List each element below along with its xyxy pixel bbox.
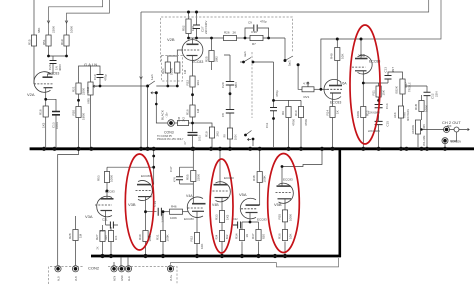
- wire V4B plate from bus: [219, 150, 221, 185]
- svg-text:470p: 470p: [104, 74, 108, 81]
- svg-text:2K: 2K: [97, 246, 100, 249]
- red ellipse around V5B: [268, 154, 300, 253]
- svg-text:R11: R11: [372, 90, 376, 96]
- tube V5A (left half): [240, 198, 259, 219]
- wire VR5 pot bottom to bus: [90, 95, 92, 147]
- wire node R51/R19 junction row: [48, 46, 50, 56]
- svg-text:R16: R16: [186, 109, 190, 115]
- svg-text:R52: R52: [182, 25, 186, 31]
- wire under-bus link: [171, 258, 339, 267]
- wire R45 to R16 node: [189, 122, 193, 124]
- wire C37/R55 top node: [180, 150, 194, 171]
- wire R9 stems: [288, 100, 290, 147]
- svg-text:C15: C15: [386, 121, 390, 127]
- capacitor C8: [226, 110, 234, 114]
- svg-text:C10: C10: [93, 74, 97, 80]
- ground bus 1: [30, 147, 474, 150]
- svg-text:C22: C22: [233, 218, 238, 221]
- resistor R49: [335, 48, 340, 61]
- svg-text:100U: 100U: [199, 135, 202, 141]
- svg-text:R33: R33: [215, 214, 219, 220]
- switch Sw1c: [246, 131, 254, 147]
- svg-text:VR5: VR5: [87, 98, 91, 104]
- wire R19 top loop: [67, 0, 110, 35]
- tube V4B (right half): [213, 182, 231, 202]
- pot VR7 TREBLE: [400, 79, 405, 94]
- svg-text:R28: R28: [68, 233, 72, 239]
- resistor R31: [160, 231, 165, 242]
- capacitor C11: [270, 108, 277, 111]
- svg-text:SCREEN: SCREEN: [451, 141, 462, 144]
- thick vertical bus link: [338, 148, 341, 258]
- resistor R24: [165, 62, 170, 73]
- svg-text:V5B: V5B: [274, 202, 282, 207]
- svg-text:CON2: CON2: [88, 266, 100, 271]
- capacitor C10: [97, 75, 104, 78]
- svg-text:R31: R31: [156, 234, 160, 240]
- wire C26 stem to V2A plate: [52, 56, 54, 60]
- tube V3A (left half): [95, 196, 114, 217]
- svg-text:C21: C21: [102, 218, 108, 222]
- resistor R12: [361, 107, 366, 118]
- resistor R48: [257, 172, 262, 183]
- svg-text:100K: 100K: [263, 175, 267, 182]
- svg-text:5a/1: 5a/1: [288, 60, 292, 66]
- svg-text:R46: R46: [171, 205, 177, 209]
- wire V6B plate stem: [360, 39, 362, 58]
- svg-text:22N 630V: 22N 630V: [204, 21, 208, 34]
- components bottom half: [73, 171, 288, 244]
- wire C20/C8 column: [224, 55, 230, 147]
- wire C11/R9/R10 top row: [274, 62, 302, 100]
- svg-text:100U: 100U: [55, 122, 59, 129]
- svg-text:V6A: V6A: [340, 82, 347, 86]
- wire R23 stem / V2B grid: [177, 50, 183, 62]
- wire V6A cathode to R14: [332, 93, 334, 107]
- svg-text:R18: R18: [39, 109, 43, 115]
- svg-text:MID BASS: MID BASS: [407, 109, 410, 121]
- svg-text:ECC83: ECC83: [105, 190, 115, 194]
- svg-text:GND: GND: [121, 275, 124, 281]
- wire R48 stems: [259, 150, 261, 205]
- svg-text:1M: 1M: [183, 69, 187, 74]
- capacitor C13b: [385, 76, 392, 80]
- svg-text:220K: 220K: [197, 174, 201, 181]
- capacitor C37: [176, 177, 183, 180]
- wire R10 stems: [300, 100, 302, 147]
- wire R51 top loop: [49, 0, 103, 35]
- svg-text:VLB+: VLB+: [170, 274, 173, 281]
- resistor R15: [31, 35, 36, 46]
- capacitor C27: [193, 25, 200, 29]
- svg-text:10K: 10K: [115, 235, 118, 240]
- resistor R23: [175, 62, 180, 73]
- svg-text:1M: 1M: [79, 233, 83, 238]
- svg-text:R32: R32: [190, 236, 194, 242]
- svg-text:R48: R48: [252, 175, 256, 181]
- resistor R19: [64, 35, 69, 46]
- resistor R9: [286, 107, 291, 118]
- svg-text:R34: R34: [235, 233, 239, 239]
- wire V5B cathode to R35: [284, 199, 286, 256]
- wire R28 stems: [75, 216, 77, 265]
- svg-text:C20: C20: [221, 82, 225, 88]
- wire R21 top: [79, 66, 91, 83]
- svg-text:10K: 10K: [289, 234, 293, 239]
- resistor R30: [143, 231, 148, 242]
- svg-text:ECC83: ECC83: [330, 101, 341, 105]
- wire R18 to bus: [45, 117, 47, 147]
- svg-text:R7: R7: [252, 42, 256, 46]
- pot VR8 MID BASS: [398, 106, 403, 118]
- wire C9 parallel loop: [245, 28, 269, 38]
- svg-text:ECC83: ECC83: [369, 60, 380, 64]
- resistor R34: [239, 230, 244, 241]
- switch Sw2 blade: [285, 56, 293, 61]
- svg-text:100K: 100K: [356, 111, 360, 118]
- svg-text:R26: R26: [224, 31, 230, 35]
- svg-text:100K: 100K: [235, 134, 238, 140]
- svg-text:R10: R10: [294, 110, 298, 116]
- dashed channel box: [161, 17, 293, 118]
- wire V3B cathode node: [146, 197, 157, 231]
- wire R37 stems: [258, 222, 260, 256]
- svg-text:R14: R14: [326, 110, 330, 116]
- dots on bus2: [100, 254, 104, 258]
- svg-text:1M: 1M: [196, 108, 200, 113]
- svg-text:47N: 47N: [174, 177, 177, 182]
- svg-text:TREBLE: TREBLE: [409, 82, 412, 92]
- svg-text:A1K: A1K: [393, 112, 397, 118]
- svg-text:ECC83: ECC83: [48, 72, 59, 76]
- svg-text:R35: R35: [278, 214, 282, 220]
- svg-text:R51: R51: [42, 39, 46, 45]
- resistor R46: [170, 209, 183, 214]
- svg-text:C11: C11: [265, 122, 269, 128]
- svg-text:R53: R53: [97, 175, 101, 181]
- resistor R13: [419, 101, 424, 112]
- wire V4A cathode to R32: [196, 211, 198, 256]
- wire R46 to V4A grid: [183, 211, 189, 213]
- svg-text:R36: R36: [278, 233, 282, 239]
- svg-text:CON3: CON3: [164, 131, 174, 135]
- resistor R22: [190, 76, 195, 87]
- svg-text:C13: C13: [384, 67, 388, 73]
- connector CON3: [168, 120, 175, 127]
- svg-text:V2B: V2B: [167, 37, 175, 42]
- resistor R20: [76, 107, 81, 118]
- wire R25 stems: [211, 38, 213, 70]
- wire RV1 to V6A grid: [314, 88, 327, 90]
- wire jog from bus to CON2 pin1: [58, 150, 79, 265]
- svg-text:B22K: B22K: [395, 86, 399, 93]
- capacitor C9: [254, 25, 257, 32]
- svg-text:A100K: A100K: [411, 125, 415, 134]
- svg-text:R19: R19: [205, 131, 209, 137]
- tube V6B: [352, 55, 372, 74]
- resistor R16: [190, 105, 195, 117]
- svg-text:1K5: 1K5: [226, 214, 230, 220]
- svg-text:22N: 22N: [435, 91, 439, 97]
- wire C13 branch: [46, 99, 56, 111]
- wire mid switch cluster: [240, 58, 274, 63]
- wire top rail long: [141, 0, 429, 12]
- svg-text:VLB: VLB: [75, 276, 78, 281]
- svg-text:R37: R37: [251, 233, 255, 239]
- svg-text:400V: 400V: [58, 64, 62, 71]
- resistor R53: [104, 172, 109, 183]
- wire R7 out: [263, 37, 285, 39]
- resistor R35: [282, 210, 287, 222]
- svg-text:ECC83: ECC83: [224, 176, 234, 180]
- resistor R21: [76, 83, 81, 94]
- tube V5B (right half): [276, 183, 294, 203]
- svg-text:220K: 220K: [82, 88, 86, 95]
- svg-text:22N 63WV: 22N 63WV: [368, 112, 380, 115]
- resistor R45: [178, 120, 189, 125]
- resistor R10: [298, 107, 303, 118]
- svg-text:R55: R55: [186, 174, 190, 180]
- svg-text:C8: C8: [221, 113, 225, 117]
- jack SCREEN: [442, 138, 448, 144]
- svg-text:V5A: V5A: [239, 192, 247, 197]
- svg-text:1K: 1K: [245, 234, 249, 238]
- svg-text:2K: 2K: [233, 31, 237, 35]
- wire switch to RV1: [298, 65, 302, 90]
- wire C10 top: [91, 66, 101, 74]
- svg-text:3.3K: 3.3K: [251, 30, 257, 34]
- svg-text:1U 50W: 1U 50W: [162, 213, 165, 223]
- arrow mark long vertical: [140, 77, 143, 80]
- wire V6B cathode node: [362, 71, 364, 107]
- resistor R51: [46, 35, 51, 46]
- ground bus 2: [91, 255, 341, 258]
- resistor R7: [250, 35, 263, 40]
- capacitor C12: [424, 92, 431, 95]
- resistor R25: [209, 51, 214, 62]
- svg-text:10K: 10K: [341, 54, 345, 59]
- svg-text:100K: 100K: [425, 105, 429, 112]
- dots on bus1: [42, 147, 46, 151]
- svg-text:220K: 220K: [52, 26, 56, 33]
- capacitor C13 (cathode): [52, 112, 60, 115]
- svg-text:VR6: VR6: [422, 124, 426, 130]
- svg-text:C14: C14: [385, 103, 389, 109]
- svg-text:3K3: 3K3: [196, 80, 200, 86]
- svg-text:15K: 15K: [382, 90, 386, 95]
- wire R53 stems: [106, 167, 108, 199]
- wire C19 to R46: [162, 211, 170, 213]
- resistor R14: [330, 107, 335, 118]
- svg-text:1a/1: 1a/1: [150, 74, 154, 80]
- svg-text:100K: 100K: [110, 175, 114, 182]
- svg-text:R27: R27: [95, 234, 99, 240]
- wire MIX to out arrow: [450, 128, 470, 130]
- svg-text:8K2: 8K2: [226, 234, 229, 239]
- svg-text:100K: 100K: [170, 216, 177, 220]
- capacitors bottom half: [110, 177, 240, 229]
- dots bottom: [152, 166, 155, 169]
- resistor R55: [191, 171, 196, 182]
- wire R13 stems: [421, 95, 423, 101]
- wire CON2 gnd stubs: [114, 257, 128, 265]
- wire R22 cathode stem: [192, 56, 194, 76]
- resistor R37: [256, 230, 261, 241]
- svg-text:V4B: V4B: [212, 203, 219, 207]
- wire R16 to bus: [192, 117, 194, 147]
- wire C27 stems: [196, 12, 198, 25]
- pot VR6 VOLUME: [415, 120, 420, 134]
- svg-text:2K2: 2K2: [216, 131, 220, 137]
- tube V3B (right half): [136, 181, 153, 201]
- svg-text:V6B: V6B: [359, 54, 366, 58]
- capacitor C26: [50, 61, 57, 64]
- svg-text:- 15v: - 15v: [166, 112, 169, 118]
- resistor R34b: [219, 231, 224, 242]
- svg-text:A1M: A1M: [86, 86, 90, 93]
- svg-text:R29: R29: [105, 235, 108, 240]
- svg-text:V4A: V4A: [186, 194, 193, 198]
- wire V2A cathode: [45, 88, 47, 106]
- svg-text:ECC83: ECC83: [184, 217, 194, 221]
- arrow mark wire R19: [65, 21, 68, 24]
- svg-text:CH 2 OUT: CH 2 OUT: [442, 120, 461, 125]
- wire VR6 bottom to bus: [417, 134, 419, 147]
- svg-text:2M2: 2M2: [215, 56, 219, 62]
- wire cathode row right: [363, 82, 388, 84]
- svg-text:100K: 100K: [70, 26, 74, 33]
- red ellipse around V6B: [350, 25, 380, 144]
- tube V4A (left half): [187, 197, 205, 218]
- CON2 dashed outline: [49, 267, 178, 284]
- svg-text:C19: C19: [153, 201, 157, 207]
- svg-text:R30: R30: [138, 234, 142, 240]
- wire V6B plate feed loop: [361, 0, 441, 39]
- svg-text:470K: 470K: [304, 119, 308, 126]
- wire switch common down to bus: [147, 86, 149, 147]
- red ellipse around V3B: [125, 154, 153, 250]
- wire C14 down C15 to bus: [378, 108, 380, 121]
- wire RV1 node up to plate row: [321, 39, 361, 89]
- svg-text:GAIN: GAIN: [84, 62, 98, 67]
- svg-text:C37: C37: [169, 166, 173, 172]
- svg-text:R34: R34: [216, 234, 219, 239]
- wire CON3 to R45: [174, 122, 177, 124]
- resistor R18b: [209, 127, 214, 138]
- bottom-half wires: [58, 150, 339, 267]
- svg-text:100K: 100K: [170, 68, 174, 75]
- svg-text:1K: 1K: [336, 110, 340, 114]
- wire C10 bottom to wiper row: [99, 78, 101, 86]
- svg-text:C9: C9: [248, 21, 252, 25]
- resistor R11: [376, 86, 381, 97]
- svg-text:470p: 470p: [260, 20, 267, 24]
- resistor R28: [73, 230, 78, 241]
- svg-text:V2A: V2A: [27, 92, 35, 97]
- wire C13b stem: [387, 80, 389, 84]
- capacitor C22: [233, 222, 241, 229]
- wire C37 stems: [179, 167, 181, 184]
- svg-text:BLACK: BLACK: [161, 110, 165, 120]
- wire lower pole to CON3: [156, 93, 167, 123]
- resistor R33: [219, 211, 224, 223]
- svg-text:470p: 470p: [275, 90, 279, 97]
- svg-text:MIX: MIX: [447, 125, 452, 128]
- svg-text:22N 63WV: 22N 63WV: [368, 130, 380, 133]
- tube V6A: [324, 79, 342, 99]
- pot RV1: [302, 87, 314, 92]
- jack MIX: [444, 127, 450, 133]
- wire R22/R16 junction: [192, 87, 194, 105]
- svg-text:VR7: VR7: [404, 82, 408, 88]
- wire input top-left vertical: [33, 0, 35, 35]
- pot VR5 GAIN: [88, 82, 93, 95]
- svg-text:ALB: ALB: [58, 276, 61, 281]
- svg-text:RV1: RV1: [304, 95, 310, 99]
- wire R18b stems: [193, 123, 213, 147]
- wire R53 plate row: [107, 166, 154, 168]
- svg-text:V3A: V3A: [85, 214, 93, 219]
- arrow mark wire R51: [47, 21, 50, 24]
- wire gain wiper row to switch: [94, 85, 148, 87]
- wire long vertical from top rail: [140, 12, 142, 147]
- svg-text:100K: 100K: [166, 234, 170, 241]
- capacitor C15: [375, 121, 383, 124]
- capacitor C14: [375, 105, 383, 108]
- svg-text:R25: R25: [205, 56, 209, 62]
- capacitor C7: [188, 133, 198, 136]
- svg-text:100K: 100K: [289, 214, 293, 221]
- capacitors upper half: [50, 25, 431, 136]
- svg-text:180K: 180K: [82, 113, 86, 120]
- wire R49 stems: [336, 39, 338, 48]
- components upper half: [31, 19, 424, 139]
- wire VR8 bottom to bus: [400, 118, 402, 147]
- resistor R36: [282, 230, 287, 241]
- svg-text:R24: R24: [161, 68, 165, 74]
- svg-text:VR8: VR8: [403, 112, 407, 118]
- svg-text:R49: R49: [330, 53, 334, 59]
- wire R24 stem: [168, 56, 178, 62]
- wire V3A cathode / C21: [103, 211, 119, 231]
- svg-text:470K: 470K: [292, 119, 296, 126]
- jack out open: [454, 127, 459, 132]
- capacitor C21: [110, 222, 113, 229]
- wire screen to bus: [444, 144, 446, 148]
- resistor R18: [43, 106, 48, 117]
- wire R30 bottom: [145, 242, 147, 257]
- wire R11 stems: [378, 83, 380, 86]
- svg-text:2N2: 2N2: [100, 230, 105, 233]
- wire V3B plate from bus: [153, 150, 155, 185]
- svg-text:VOLUME: VOLUME: [423, 135, 426, 146]
- svg-text:820: 820: [262, 234, 266, 239]
- resistor R27: [100, 231, 105, 242]
- resistor R9b: [227, 128, 232, 139]
- svg-text:ECC83: ECC83: [257, 218, 267, 222]
- svg-text:R45: R45: [178, 116, 181, 121]
- wire V5A cathode: [249, 213, 251, 223]
- wire R26 to R7: [237, 37, 251, 39]
- svg-text:R22: R22: [186, 80, 190, 86]
- red ellipse around V4B: [210, 159, 233, 253]
- svg-text:18K: 18K: [191, 26, 195, 31]
- svg-text:R19: R19: [60, 39, 64, 45]
- resistor R29: [108, 231, 113, 242]
- wire R52 stems: [188, 12, 190, 19]
- svg-text:3a/1: 3a/1: [243, 51, 247, 57]
- svg-text:ECC83: ECC83: [192, 60, 203, 64]
